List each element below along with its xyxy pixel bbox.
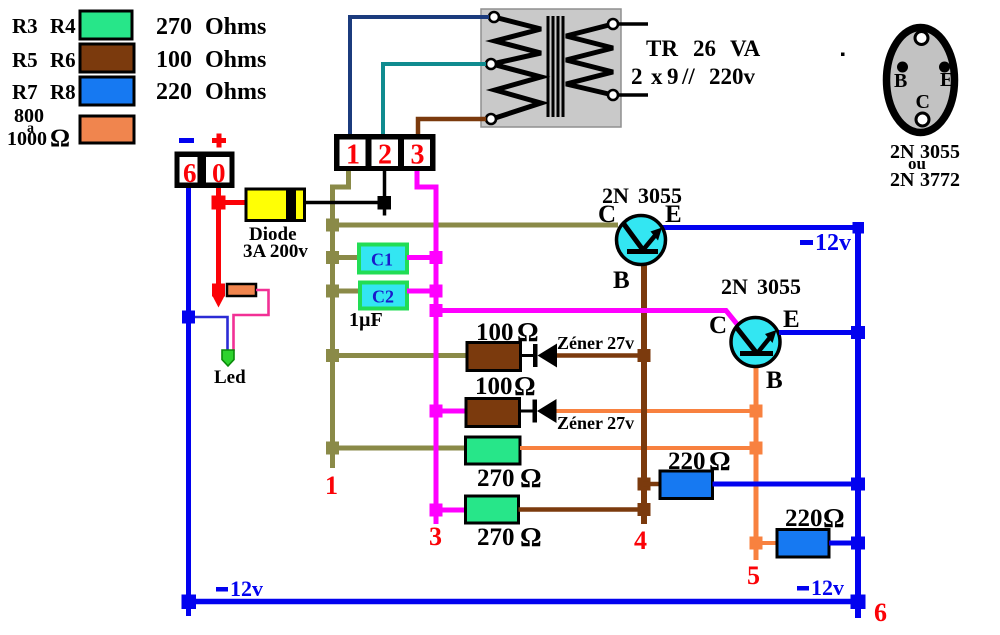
resistor R3 270 ohm [466, 437, 521, 464]
wire orange Z2 to Q2 base rail [557, 409, 754, 413]
transformer primary winding [492, 17, 541, 119]
wire brown Z1 to base rail [557, 353, 641, 358]
label 270 ohm R3 [477, 463, 542, 493]
svg-text:1µF: 1µF [349, 309, 383, 331]
node red junction resistor [212, 284, 225, 297]
wire blue Q2 emitter link [779, 330, 856, 335]
legend swatch blue 220 ohms [80, 77, 134, 105]
svg-text:TR: TR [646, 36, 678, 61]
node magenta junction R6 row [430, 405, 443, 418]
wire orange to R8 [756, 541, 778, 545]
svg-text:E: E [940, 69, 953, 91]
wire blue R8 to rail [829, 541, 856, 546]
transistor Q2 label [721, 274, 801, 299]
legend value 270 Ohms [156, 14, 266, 40]
node blue cross bottom-left [182, 595, 197, 610]
wire olive to R3 [333, 446, 467, 451]
node black junction [378, 196, 392, 210]
zener diode Z2 [533, 399, 557, 423]
wire blue right rail [855, 227, 861, 618]
resistor R8 220 ohm [777, 530, 829, 558]
wire magenta C2 link [407, 289, 436, 294]
legend swatch green 270 ohms [80, 11, 132, 39]
wire black R6 to zener [520, 410, 534, 413]
minus polarity mark [179, 138, 194, 143]
svg-text:R8: R8 [50, 80, 76, 104]
svg-text:B: B [766, 367, 783, 394]
wire blue bottom rail [186, 599, 858, 605]
label TR 26 VA [646, 36, 761, 61]
terminal block 1-2-3 [334, 134, 436, 171]
label -12v bottom left [216, 576, 263, 601]
wire blue left rail [186, 188, 191, 616]
wire olive to C2 [333, 289, 362, 294]
wire navy primary 1 [350, 17, 489, 136]
capacitor C1 [359, 245, 407, 273]
svg-text:270: 270 [477, 524, 515, 551]
node blue junction R7 row [851, 478, 865, 491]
node brown junction R7 row [638, 478, 651, 491]
svg-text:3: 3 [429, 522, 442, 551]
label 100 ohm R6 [475, 371, 536, 401]
node orange junction R3 row [750, 442, 763, 455]
transformer terminal primary 1 [489, 12, 499, 22]
svg-text:Ω: Ω [823, 503, 845, 533]
node magenta junction R4 row [430, 504, 443, 517]
label 220 ohm R8 [785, 503, 845, 533]
legend swatch orange 800-1000 ohms [80, 116, 134, 143]
svg-text:R5: R5 [12, 48, 38, 72]
svg-text:12v: 12v [815, 230, 851, 256]
wire olive main [333, 171, 349, 468]
resistor R4 270 ohm [466, 496, 519, 523]
wire olive to C1 [333, 255, 361, 260]
plus polarity mark [212, 134, 226, 148]
svg-text:C: C [916, 91, 930, 113]
wire pink led [234, 290, 269, 351]
svg-text://: // [681, 64, 695, 89]
svg-text:E: E [783, 306, 800, 333]
TO-3 caption 2N3772 [890, 169, 960, 191]
wire magenta to R4 [436, 508, 466, 513]
wire blue R7 to rail [713, 482, 857, 487]
svg-text:Ohms: Ohms [205, 79, 266, 105]
legend labels R3 R4 [12, 14, 76, 38]
label 100 ohm R5 [476, 317, 539, 347]
svg-text:Zéner 27v: Zéner 27v [557, 413, 634, 433]
svg-text:220v: 220v [709, 64, 756, 89]
svg-text:9: 9 [667, 64, 679, 89]
wire olive to R5 [333, 353, 468, 358]
node blue corner top-right [853, 222, 865, 234]
node olive junction R3 row [326, 442, 339, 455]
TO-3 hole bottom [916, 113, 929, 126]
svg-text:5: 5 [747, 561, 760, 590]
node brown junction R4 row [638, 503, 651, 516]
TO-3 package outline [887, 28, 955, 133]
label -12v top right [800, 230, 851, 256]
svg-text:C: C [709, 312, 727, 339]
stray dot [841, 53, 845, 57]
wire brown primary 3 [418, 119, 486, 136]
svg-text:100: 100 [475, 373, 513, 400]
node blue junction led branch [182, 311, 195, 324]
transistor Q1 label [602, 183, 682, 208]
red wire end arrow [213, 296, 225, 308]
wire red from terminal 0 [216, 188, 221, 296]
wire olive to Q1 collector [330, 223, 618, 228]
svg-text:Zéner 27v: Zéner 27v [557, 333, 634, 353]
node magenta junction C1 row [430, 251, 443, 264]
resistor R5 100 ohm [467, 343, 521, 371]
transistor Q2 [731, 318, 780, 367]
label 2x9 220v [631, 64, 756, 89]
svg-text:2: 2 [631, 64, 643, 89]
ballast resistor 800-1000 ohm [227, 284, 256, 296]
legend labels R7 R8 [12, 80, 76, 104]
legend label 800 a 1000 ohms [7, 105, 70, 152]
transformer terminal secondary 2 [608, 90, 618, 100]
svg-text:220: 220 [785, 505, 823, 532]
transformer terminal secondary 1 [608, 19, 618, 29]
legend labels R5 R6 [12, 48, 76, 72]
svg-text:R3: R3 [12, 14, 38, 38]
wire blue Q1 emitter to rail [661, 225, 860, 230]
svg-text:2: 2 [378, 140, 392, 171]
svg-text:B: B [613, 267, 630, 294]
svg-text:6: 6 [183, 158, 197, 188]
transformer core bars [547, 16, 565, 117]
node blue junction R8 row [851, 537, 865, 550]
svg-text:3055: 3055 [920, 141, 960, 163]
wire orange R3 to Q2 base rail [520, 446, 753, 450]
TO-3 pin E dot [939, 62, 950, 73]
wire red to diode [224, 200, 247, 205]
transformer secondary winding [566, 24, 613, 95]
svg-text:Ohms: Ohms [205, 14, 266, 40]
svg-text:2N: 2N [721, 274, 748, 299]
label -12v bottom right [797, 575, 844, 600]
svg-text:C2: C2 [372, 287, 394, 307]
svg-text:B: B [894, 70, 907, 92]
svg-text:x: x [651, 64, 663, 89]
svg-text:R4: R4 [50, 14, 76, 38]
transformer terminal primary 3 [486, 114, 496, 124]
wire black secondary lead top [618, 22, 648, 26]
label 270 ohm R4 [477, 522, 542, 552]
node magenta junction Q2 row [430, 304, 443, 317]
wire black stub terminal 2 [383, 171, 387, 216]
svg-text:0: 0 [212, 158, 226, 188]
svg-text:2N: 2N [890, 169, 915, 191]
wire black secondary lead bottom [618, 93, 648, 97]
node orange junction R8 row [750, 537, 763, 550]
node olive junction Q1 row [326, 219, 339, 232]
svg-text:R7: R7 [12, 80, 38, 104]
node blue cross bottom-right [851, 595, 866, 610]
zener diode Z1 [533, 344, 557, 368]
svg-text:3A 200v: 3A 200v [243, 241, 308, 262]
node brown junction Z1 row [638, 349, 651, 362]
resistor R7 220 ohm [660, 471, 713, 499]
diode D1 body [246, 189, 305, 221]
svg-text:C: C [598, 201, 616, 228]
wire magenta to Q2 collector [436, 311, 739, 327]
TO-3 pin B dot [897, 62, 908, 73]
svg-text:Led: Led [214, 367, 246, 388]
svg-text:270: 270 [156, 14, 192, 40]
svg-text:E: E [665, 201, 682, 228]
svg-text:12v: 12v [230, 576, 263, 601]
wire teal primary 2 [383, 64, 486, 136]
label Diode 3A 200v [243, 224, 308, 262]
node magenta junction C2 row [430, 285, 443, 298]
wire brown R4 to Q1 base rail [519, 507, 642, 512]
svg-text:Ohms: Ohms [205, 47, 266, 73]
TO-3 hole top [915, 32, 928, 45]
node olive junction R5 row [326, 349, 339, 362]
svg-text:3772: 3772 [920, 169, 960, 191]
TO-3 caption 2N3055 [890, 141, 960, 163]
svg-text:4: 4 [634, 526, 647, 555]
svg-text:6: 6 [874, 598, 887, 627]
node olive junction C2 row [326, 285, 339, 298]
transformer terminal primary 2 [486, 59, 496, 69]
legend value 220 Ohms [156, 79, 266, 105]
node red junction diode [212, 196, 226, 210]
node olive junction C1 row [326, 251, 339, 264]
svg-text:Ω: Ω [520, 463, 542, 493]
wire magenta C1 link [407, 255, 436, 260]
svg-text:1: 1 [346, 140, 360, 171]
terminal block 6-0 [175, 152, 235, 189]
svg-text:C1: C1 [371, 250, 393, 270]
svg-text:R6: R6 [50, 48, 76, 72]
LED [222, 350, 234, 366]
wire brown Q1 base rail [641, 250, 647, 524]
svg-text:220: 220 [156, 79, 192, 105]
svg-text:Ω: Ω [709, 446, 731, 476]
legend value 100 Ohms [156, 47, 266, 73]
resistor R6 100 ohm [466, 399, 520, 427]
wire brown to R7 [643, 482, 661, 487]
label 220 ohm R7 [668, 446, 731, 476]
node orange junction Z2 row [750, 405, 763, 418]
wire black R5 to zener [521, 354, 535, 357]
svg-text:270: 270 [477, 465, 515, 492]
wire magenta to R6 [436, 409, 466, 414]
svg-text:12v: 12v [811, 575, 844, 600]
wire magenta main [417, 171, 436, 524]
wire black diode to node [305, 201, 385, 205]
node blue junction Q2 emitter [851, 326, 865, 339]
svg-text:1000: 1000 [7, 128, 47, 150]
legend swatch brown 100 ohms [80, 44, 134, 72]
wire thin blue led [195, 317, 228, 351]
wire orange Q2 base rail [754, 352, 759, 560]
transformer body [481, 9, 621, 127]
svg-text:100: 100 [156, 47, 192, 73]
capacitor C2 [360, 283, 407, 309]
svg-text:3055: 3055 [757, 274, 801, 299]
svg-text:Ω: Ω [50, 125, 70, 152]
svg-text:1: 1 [325, 471, 338, 500]
svg-text:Ω: Ω [514, 371, 536, 401]
svg-text:VA: VA [730, 36, 761, 61]
svg-text:26: 26 [693, 36, 716, 61]
transistor Q1 [617, 216, 666, 265]
svg-text:3: 3 [411, 140, 425, 171]
svg-text:220: 220 [668, 448, 706, 475]
svg-text:Ω: Ω [520, 522, 542, 552]
